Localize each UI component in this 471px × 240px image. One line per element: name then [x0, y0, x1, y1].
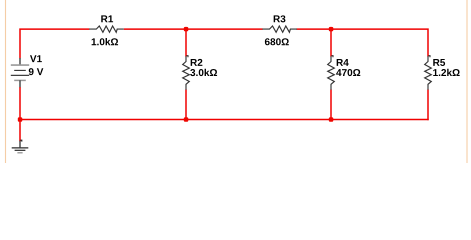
wire: R4 bottom stub [330, 90, 332, 120]
label R4 [337, 59, 349, 66]
wire: R4 top stub [330, 29, 332, 56]
wire: top rail from V1 to R1 [20, 29, 89, 58]
value 470Ω [336, 69, 360, 76]
wire: top rail R3 to right corner down to R5 [297, 29, 429, 56]
ground [12, 140, 29, 153]
label R1 [101, 15, 113, 22]
wire: left vertical below V1 [19, 87, 21, 120]
wire: ground drop [19, 120, 21, 142]
label R3 [274, 15, 286, 22]
wire: R2 bottom stub [185, 90, 187, 120]
value 680Ω [265, 38, 289, 45]
node: junction ground/bottom rail [18, 117, 23, 122]
resistor R2 [183, 56, 190, 90]
value 9 V [29, 68, 44, 75]
resistor R1 [89, 26, 124, 32]
resistor R5 [425, 56, 432, 90]
value 3.0kΩ [190, 69, 217, 76]
node: junction R4 bottom [329, 117, 334, 122]
battery V1 [11, 58, 29, 87]
wire: R2 top stub [185, 29, 187, 56]
node: junction R4 top [329, 27, 334, 32]
wire: bottom rail [19, 119, 428, 121]
sheet border left [5, 0, 7, 163]
node: junction R2 top [184, 27, 189, 32]
sheet border right [466, 0, 468, 163]
value 1.0kΩ [92, 38, 118, 45]
wire: top rail R1 to R3 [124, 28, 263, 30]
resistor R3 [262, 26, 297, 32]
value 1.2kΩ [433, 69, 459, 76]
label V1 [30, 55, 42, 62]
wire: right vertical below R5 [427, 90, 429, 121]
resistor R4 [328, 56, 335, 90]
label R2 [191, 59, 203, 66]
node: junction R2 bottom [184, 117, 189, 122]
label R5 [433, 59, 445, 66]
